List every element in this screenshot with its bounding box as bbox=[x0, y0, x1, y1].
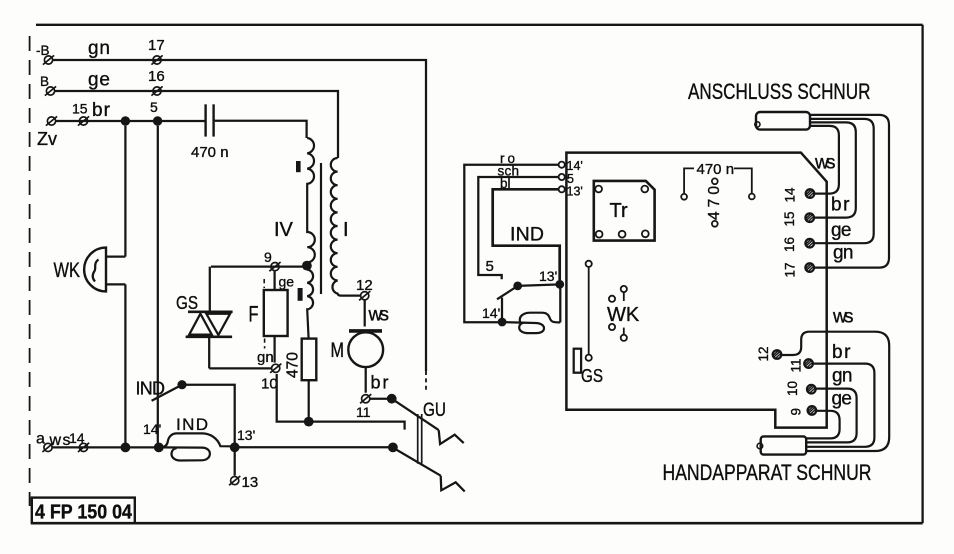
induction coil IND right bbox=[502, 313, 560, 333]
junction dot GU bbox=[388, 443, 398, 453]
node -B bbox=[43, 55, 54, 64]
wire 11 to GU bbox=[370, 398, 389, 400]
svg-text:IND: IND bbox=[510, 224, 544, 246]
terminal 9 screw bbox=[808, 406, 817, 415]
svg-text:B: B bbox=[40, 74, 49, 89]
handapparat cord ge bbox=[807, 411, 840, 439]
connector GU bbox=[392, 399, 465, 492]
svg-text:16: 16 bbox=[148, 68, 165, 85]
switch IND dot bbox=[513, 282, 522, 291]
wire M to 11 bbox=[365, 367, 367, 393]
svg-text:13': 13' bbox=[237, 427, 255, 443]
resistor F bbox=[249, 271, 288, 363]
svg-text:13': 13' bbox=[567, 185, 583, 199]
wire bottom rail left bbox=[53, 446, 155, 448]
node a bbox=[42, 443, 53, 452]
terminal 14' bbox=[559, 162, 565, 168]
svg-text:M: M bbox=[331, 339, 345, 362]
transformer winding II bbox=[307, 270, 313, 339]
svg-text:br: br bbox=[371, 373, 389, 393]
winding section bar 2 bbox=[298, 288, 303, 301]
board outline bbox=[566, 153, 826, 428]
wire row3 bbox=[56, 120, 205, 122]
terminal 17 bbox=[151, 55, 162, 64]
svg-text:4 FP 150 04: 4 FP 150 04 bbox=[35, 502, 133, 524]
svg-text:5: 5 bbox=[486, 258, 494, 275]
terminal 12 screw bbox=[773, 350, 782, 359]
svg-text:HANDAPPARAT SCHNUR: HANDAPPARAT SCHNUR bbox=[663, 460, 872, 485]
terminal 16 screw bbox=[805, 239, 814, 248]
contact WK circles bbox=[607, 286, 640, 341]
svg-text:ws: ws bbox=[832, 307, 854, 328]
svg-text:15: 15 bbox=[72, 101, 88, 117]
terminal 11 screw bbox=[804, 359, 813, 368]
svg-text:br: br bbox=[832, 342, 851, 363]
handapparat cord br bbox=[807, 364, 874, 447]
resistor 470 bbox=[285, 339, 317, 422]
svg-text:10: 10 bbox=[261, 376, 278, 393]
node 13' dot bbox=[555, 280, 564, 289]
svg-text:gn: gn bbox=[88, 38, 110, 59]
node 13' junction dot bbox=[230, 442, 240, 452]
wire 13 stub bbox=[234, 452, 236, 476]
svg-text:WK: WK bbox=[607, 304, 640, 326]
cord ge bbox=[810, 119, 874, 243]
svg-text:17: 17 bbox=[148, 37, 165, 54]
svg-text:F: F bbox=[249, 302, 259, 327]
node B bbox=[45, 86, 56, 95]
wire ge row bbox=[55, 91, 338, 158]
switch blade bbox=[497, 286, 518, 299]
terminal 14 screw bbox=[806, 189, 815, 198]
border frame left (dashed) bbox=[29, 36, 31, 506]
terminal 16 bbox=[151, 86, 162, 95]
terminal 15 screw bbox=[805, 213, 814, 222]
svg-text:Tr: Tr bbox=[610, 200, 628, 222]
svg-text:a: a bbox=[36, 431, 45, 448]
wire coil to 13' dot bbox=[559, 288, 561, 322]
svg-text:470: 470 bbox=[285, 352, 302, 378]
svg-text:14': 14' bbox=[143, 421, 161, 437]
svg-text:10: 10 bbox=[785, 381, 800, 396]
title box 4FP15004 bbox=[32, 498, 135, 524]
wire between dots bbox=[518, 285, 557, 286]
svg-text:IV: IV bbox=[274, 219, 294, 241]
node 14' junction dot bbox=[154, 443, 164, 453]
svg-text:470 n: 470 n bbox=[191, 144, 229, 161]
capacitor 470n right bbox=[681, 161, 755, 200]
wire terminal 10 down bbox=[277, 374, 405, 430]
node 9 junction dot bbox=[302, 261, 312, 271]
capacitor 470n bbox=[206, 104, 214, 136]
junction dot bbox=[304, 417, 314, 427]
border frame right bbox=[921, 25, 923, 523]
svg-text:br: br bbox=[831, 195, 850, 216]
terminal 13' bbox=[559, 186, 565, 192]
switch contact IND bbox=[136, 379, 235, 448]
svg-text:GU: GU bbox=[423, 400, 446, 421]
terminal 10 bbox=[270, 364, 281, 373]
svg-text:GS: GS bbox=[581, 365, 603, 386]
handapparat cord ws bbox=[782, 332, 889, 451]
wire left vertical lower bbox=[124, 284, 126, 447]
plug Anschluss bbox=[755, 112, 810, 130]
svg-text:ge: ge bbox=[88, 70, 110, 91]
svg-text:13: 13 bbox=[242, 474, 259, 491]
wire gn row bbox=[53, 60, 426, 371]
transformer core bbox=[320, 163, 322, 294]
svg-text:16: 16 bbox=[782, 237, 797, 252]
svg-text:17: 17 bbox=[783, 262, 798, 277]
winding section bar bbox=[296, 161, 301, 172]
border frame bottom bbox=[32, 522, 923, 525]
terminal 10 screw bbox=[807, 385, 816, 394]
cord br bbox=[810, 122, 856, 217]
wire left vertical upper bbox=[124, 126, 126, 257]
terminal 17 screw bbox=[805, 263, 814, 272]
svg-text:-B: -B bbox=[36, 43, 50, 58]
svg-text:12: 12 bbox=[756, 346, 771, 361]
wire GS to terminal 10 bbox=[209, 367, 271, 369]
terminal 13 bbox=[229, 476, 240, 485]
transformer winding IV bbox=[307, 138, 315, 262]
wire cap to transformer bbox=[215, 121, 307, 138]
transformer winding I bbox=[331, 158, 360, 296]
transformer Tr box bbox=[594, 181, 655, 241]
wire 12 to receiver bbox=[364, 301, 366, 327]
node 14' dot bbox=[498, 318, 507, 327]
svg-text:13': 13' bbox=[539, 268, 557, 284]
terminal 5 bbox=[559, 174, 565, 180]
svg-text:ws: ws bbox=[814, 153, 836, 174]
terminal 12 bbox=[359, 291, 370, 300]
svg-text:gn: gn bbox=[832, 366, 853, 387]
svg-text:470: 470 bbox=[706, 186, 723, 220]
cord ws bbox=[810, 126, 839, 194]
rectifier GS right bbox=[574, 261, 603, 386]
cord gn bbox=[810, 115, 889, 268]
svg-text:gn: gn bbox=[257, 349, 274, 366]
plug Handapparat bbox=[757, 436, 806, 454]
svg-text:GS: GS bbox=[176, 292, 198, 313]
resistor 470 right bbox=[706, 178, 723, 226]
svg-text:12: 12 bbox=[356, 277, 373, 294]
wire 5 vertical bbox=[157, 126, 159, 448]
junction dot bbox=[387, 394, 397, 404]
svg-text:gn: gn bbox=[833, 243, 854, 264]
svg-text:I: I bbox=[343, 219, 349, 241]
receiver M bbox=[331, 331, 384, 367]
junction dot bbox=[121, 116, 130, 125]
svg-text:ws: ws bbox=[368, 305, 390, 326]
terminal 14 bbox=[78, 443, 89, 452]
svg-text:14: 14 bbox=[783, 187, 798, 203]
junction dot bbox=[121, 443, 131, 453]
node 5 junction bbox=[153, 116, 162, 125]
svg-text:Zv: Zv bbox=[37, 129, 57, 149]
wire pivot to 14' dot bbox=[501, 298, 503, 318]
rectifier GS bbox=[176, 267, 233, 369]
svg-text:WK: WK bbox=[54, 259, 81, 282]
terminal 9 bbox=[269, 262, 280, 271]
handapparat cord gn bbox=[807, 389, 857, 443]
svg-text:5: 5 bbox=[150, 99, 158, 115]
border frame top bbox=[36, 24, 923, 26]
svg-text:ANSCHLUSS SCHNUR: ANSCHLUSS SCHNUR bbox=[688, 79, 871, 104]
svg-text:9: 9 bbox=[264, 249, 272, 265]
svg-text:ge: ge bbox=[831, 220, 852, 241]
svg-text:ge: ge bbox=[279, 274, 295, 290]
svg-text:15: 15 bbox=[782, 211, 797, 226]
svg-text:14': 14' bbox=[567, 159, 583, 173]
terminal 11 bbox=[360, 394, 371, 403]
wire terminal 9 row bbox=[211, 265, 303, 267]
svg-text:14': 14' bbox=[482, 305, 500, 321]
svg-text:11: 11 bbox=[356, 404, 371, 420]
node Zv bbox=[46, 116, 57, 125]
wire bottom rail right bbox=[231, 446, 389, 447]
hook switch WK bbox=[54, 248, 126, 292]
terminal 15 bbox=[78, 116, 89, 125]
svg-text:9: 9 bbox=[789, 408, 804, 416]
svg-text:IND: IND bbox=[136, 379, 166, 399]
svg-text:br: br bbox=[92, 100, 111, 121]
svg-text:ge: ge bbox=[832, 389, 853, 410]
svg-text:11: 11 bbox=[789, 358, 804, 372]
induction coil IND bbox=[159, 415, 231, 461]
svg-text:470 n: 470 n bbox=[697, 161, 735, 178]
